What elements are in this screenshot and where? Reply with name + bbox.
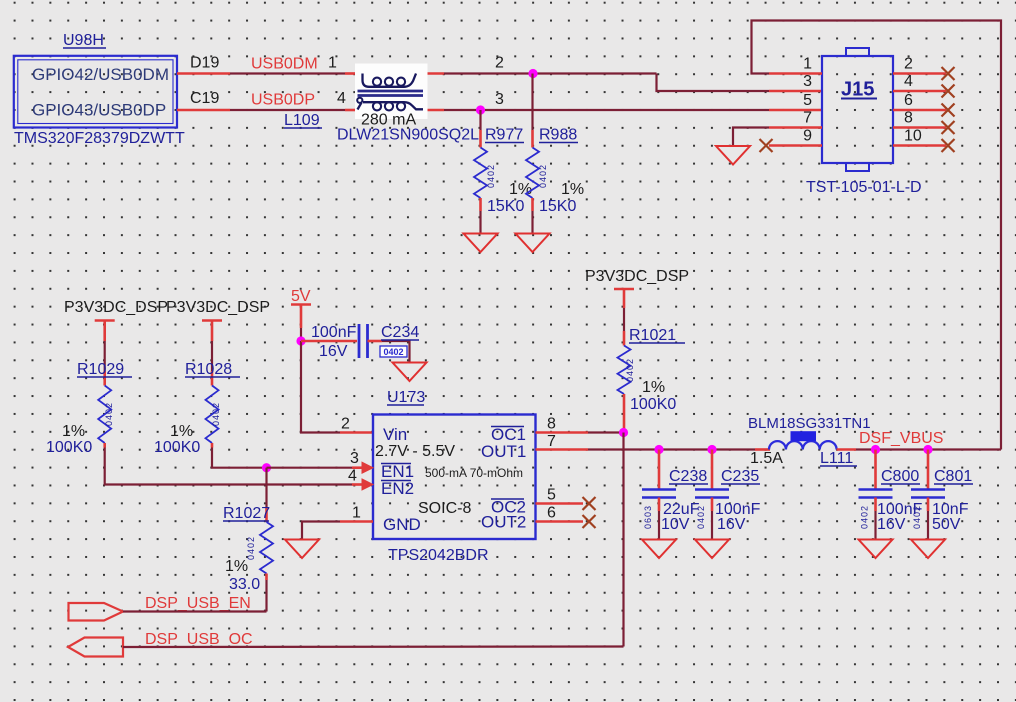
svg-text:C19: C19 [190, 90, 219, 107]
svg-text:TST-105-01-L-D: TST-105-01-L-D [806, 179, 922, 196]
wire R1021 to OC1 junction [623, 394, 626, 433]
choke L109 core lines [358, 90, 424, 93]
wire R988 to ground [531, 198, 534, 211]
wire C800 to ground [874, 498, 877, 512]
resistor R977 wire from junction [479, 110, 481, 130]
svg-text:10V: 10V [661, 516, 690, 533]
wire DSP_USB_OC [123, 645, 624, 648]
wire USB0DP to choke [230, 109, 345, 111]
wire C234 to ground corner [368, 340, 383, 343]
svg-text:16V: 16V [717, 516, 746, 533]
capacitor C238 plates [642, 488, 676, 491]
wire junction down to DSP_USB_OC line [622, 433, 624, 647]
connector J15 top tab [846, 48, 869, 56]
junction at R988 top [528, 69, 537, 78]
svg-text:3: 3 [803, 73, 812, 90]
wire stub J15 pin 5 [769, 109, 822, 112]
svg-text:6: 6 [547, 505, 556, 522]
wire choke pin2 to step-down corner [444, 72, 657, 74]
wire power bar to R1029 [103, 321, 106, 342]
J15 right pin 8 stub [893, 126, 946, 129]
resistor R1027 body [260, 522, 273, 574]
resistor R1029 body [98, 386, 111, 444]
svg-text:5V: 5V [291, 288, 311, 305]
wire C235 to ground [711, 498, 714, 512]
svg-text:0402: 0402 [625, 358, 635, 382]
svg-text:1: 1 [803, 56, 812, 73]
capacitor C234 plates [358, 324, 361, 358]
svg-text:P3V3DC_DSP: P3V3DC_DSP [166, 299, 270, 316]
svg-text:C234: C234 [381, 324, 419, 341]
svg-text:USB0DP: USB0DP [251, 92, 315, 109]
svg-text:R1029: R1029 [77, 361, 124, 378]
U173 pin5 OC2 stub [536, 502, 584, 505]
junction EN1/R1027 [262, 463, 271, 472]
choke L109 top winding [363, 74, 417, 87]
junction at C235 [707, 445, 716, 454]
junction OC1/R1021/DSP_USB_OC [619, 428, 628, 437]
svg-text:BLM18SG331TN1: BLM18SG331TN1 [748, 415, 871, 432]
svg-text:OUT2: OUT2 [481, 513, 526, 532]
svg-text:4: 4 [348, 468, 357, 485]
ferrite bead L111 body [769, 441, 837, 449]
svg-text:0402: 0402 [696, 505, 706, 529]
EN2 input arrow [362, 479, 373, 490]
power bar R1029 [95, 319, 115, 321]
power bar R1028 [202, 319, 222, 321]
ic U173 body [373, 415, 536, 540]
mcu block U98H outline [14, 56, 177, 128]
wire junction to EN1 pin [267, 467, 353, 469]
wire power bar to R1021 [623, 289, 626, 308]
svg-text:100nF: 100nF [311, 324, 357, 341]
svg-text:0402: 0402 [860, 505, 870, 529]
wire stub into choke pin 1 [345, 72, 359, 75]
svg-text:R1021: R1021 [629, 327, 676, 344]
wire stub J15 pin 3 [769, 90, 822, 93]
svg-text:U173: U173 [387, 389, 425, 406]
svg-text:2: 2 [904, 56, 913, 73]
svg-text:4: 4 [904, 73, 913, 90]
no-connect X on pin 8 [942, 121, 955, 134]
resistor R977 body [474, 148, 487, 199]
junction at R977 top [476, 105, 485, 114]
svg-text:0402: 0402 [104, 402, 114, 426]
svg-text:16V: 16V [877, 516, 906, 533]
svg-text:0402: 0402 [246, 536, 256, 560]
wire stub J15 pin 7 [769, 126, 822, 129]
wire R1029 to EN2 [103, 443, 106, 448]
svg-text:15K0: 15K0 [487, 198, 524, 215]
svg-text:1%: 1% [642, 379, 665, 396]
ground below C235 [695, 540, 729, 559]
wire jog down to J15 pin3 level [657, 74, 770, 92]
junction at C801 [923, 445, 932, 454]
svg-text:DLW21SN900SQ2L: DLW21SN900SQ2L [337, 127, 479, 144]
wire C238 to ground [658, 498, 661, 512]
wire stub into Vin pin [340, 431, 373, 434]
svg-text:7: 7 [547, 433, 556, 450]
ground below C800 [859, 540, 893, 559]
svg-text:1: 1 [328, 55, 337, 72]
svg-text:16V: 16V [319, 343, 348, 360]
wire stub out of choke pin 2 [420, 72, 445, 75]
wire J15 pin1 up and across top to VBUS [752, 21, 1002, 450]
svg-text:J15: J15 [841, 79, 874, 101]
ground below R977 [464, 234, 498, 253]
wire stub into bead [755, 448, 770, 451]
svg-text:9: 9 [803, 128, 812, 145]
svg-text:R988: R988 [539, 127, 577, 144]
svg-text:10: 10 [904, 128, 922, 145]
svg-text:8: 8 [547, 416, 556, 433]
capacitor C800 top wire [874, 450, 877, 489]
svg-text:D19: D19 [190, 55, 219, 72]
wire OC1 to junction [588, 431, 624, 433]
svg-text:0603: 0603 [643, 505, 653, 529]
capacitor C801 top wire [927, 450, 930, 489]
svg-text:3: 3 [495, 91, 504, 108]
wire stub J15 pin 1 [769, 72, 822, 75]
svg-text:OUT1: OUT1 [481, 442, 526, 461]
resistor R988 wire from junction [531, 74, 533, 131]
ground at J15 pin 7 [716, 146, 750, 165]
power bar R1021 [614, 288, 634, 290]
svg-text:GPIO43/USB0DP: GPIO43/USB0DP [32, 101, 166, 120]
connector J15 body [822, 56, 893, 163]
wire stub out of choke pin 3 [423, 109, 444, 112]
capacitor C800 plates [859, 488, 893, 491]
svg-text:C800: C800 [881, 468, 919, 485]
wire USB0DM to choke [230, 72, 345, 74]
junction at C238 [654, 445, 663, 454]
svg-text:1: 1 [352, 505, 361, 522]
wire USB0DM pin stub from U98H [177, 72, 230, 75]
svg-text:U98H: U98H [63, 32, 104, 49]
power bar 5V [291, 303, 311, 305]
J15 right pin 6 stub [893, 109, 946, 112]
no-connect X on pin 4 [942, 85, 955, 98]
svg-text:SOIC-8: SOIC-8 [418, 500, 471, 517]
capacitor C238 top wire [658, 450, 661, 489]
svg-text:0402: 0402 [211, 402, 221, 426]
svg-text:500-mA 70-mOhm: 500-mA 70-mOhm [425, 466, 523, 480]
svg-text:5: 5 [547, 487, 556, 504]
svg-text:8: 8 [904, 110, 913, 127]
svg-text:C238: C238 [669, 468, 707, 485]
svg-text:50V: 50V [932, 516, 961, 533]
svg-text:1.5A: 1.5A [750, 450, 783, 467]
connector J15 bottom tab [846, 163, 869, 171]
svg-text:R977: R977 [485, 127, 523, 144]
wire GND pin to ground [340, 520, 373, 523]
svg-text:1%: 1% [225, 558, 248, 575]
svg-text:0402: 0402 [538, 164, 548, 188]
svg-text:1%: 1% [62, 423, 85, 440]
svg-text:L111: L111 [820, 450, 853, 467]
svg-text:GPIO42/USB0DM: GPIO42/USB0DM [32, 65, 169, 84]
J15 right pin 4 stub [893, 90, 946, 93]
wire junction down to Vin [301, 341, 340, 433]
wire R977 to ground [479, 198, 482, 211]
no-connect X on pin 6 [942, 104, 955, 117]
svg-text:GND: GND [383, 515, 421, 534]
port flag DSP_USB_EN [69, 603, 124, 621]
svg-text:4: 4 [337, 90, 346, 107]
svg-text:DSF_VBUS: DSF_VBUS [859, 430, 943, 447]
no-connect X on OUT2 [583, 515, 596, 528]
svg-text:15K0: 15K0 [539, 198, 576, 215]
ground below R988 [516, 234, 550, 253]
wire C801 to ground [927, 498, 930, 512]
port flag DSP_USB_OC [68, 638, 123, 657]
svg-text:C235: C235 [721, 468, 759, 485]
svg-text:Vin: Vin [383, 425, 407, 444]
svg-text:R1028: R1028 [185, 361, 232, 378]
wire OUT1 to ferrite bead [588, 448, 755, 450]
resistor R1021 body [618, 346, 631, 395]
resistor R1028 body [206, 386, 219, 444]
no-connect X on pin 9 [760, 139, 773, 152]
common-mode choke L109 white background [355, 64, 428, 120]
wire junction down to R1027 [265, 468, 267, 508]
EN1 input arrow [362, 462, 373, 473]
ground below U173 [285, 540, 319, 559]
svg-text:1%: 1% [561, 181, 584, 198]
svg-text:0402: 0402 [486, 164, 496, 188]
junction at C800 [871, 445, 880, 454]
svg-text:L109: L109 [284, 112, 320, 129]
ground below C801 [911, 540, 945, 559]
ground below C234 [393, 363, 427, 382]
svg-text:100K0: 100K0 [46, 439, 92, 456]
wire OUT1 pin stub [536, 448, 589, 451]
svg-text:DSP_USB_OC: DSP_USB_OC [145, 631, 253, 648]
svg-text:0402: 0402 [383, 347, 403, 357]
wire DSP_USB_EN [123, 610, 267, 612]
svg-text:TPS2042BDR: TPS2042BDR [388, 547, 489, 564]
svg-text:7: 7 [803, 110, 812, 127]
svg-text:C801: C801 [934, 468, 972, 485]
svg-text:2.7V - 5.5V: 2.7V - 5.5V [375, 443, 455, 460]
U173 pin6 OUT2 stub [536, 520, 584, 523]
svg-text:USB0DM: USB0DM [251, 56, 318, 73]
svg-text:2: 2 [495, 55, 504, 72]
resistor R988 body [526, 148, 539, 199]
wire stub into choke pin 4 [345, 109, 358, 112]
no-connect X on pin 10 [942, 139, 955, 152]
ground below C238 [642, 540, 676, 559]
svg-text:33.0: 33.0 [229, 576, 260, 593]
wire J15 pin7 to ground [733, 128, 769, 147]
J15 right pin 10 stub [893, 144, 946, 147]
capacitor C235 plates [695, 488, 729, 491]
svg-text:3: 3 [350, 450, 359, 467]
choke L109 bottom winding [358, 103, 362, 110]
svg-text:EN2: EN2 [381, 479, 414, 498]
J15 right pin 2 stub [893, 72, 946, 75]
no-connect X on pin 2 [942, 67, 955, 80]
junction 5V/Vin/C234 [296, 336, 305, 345]
svg-text:5: 5 [803, 92, 812, 109]
svg-text:R1027: R1027 [223, 505, 270, 522]
wire R1028 to EN1 [211, 443, 214, 448]
wire bead to VBUS corner [837, 448, 856, 451]
svg-text:P3V3DC_DSP: P3V3DC_DSP [64, 299, 168, 316]
wire R1027 to DSP_USB_EN line [265, 574, 268, 581]
svg-text:TMS320F28379DZWTT: TMS320F28379DZWTT [14, 130, 185, 147]
svg-text:1%: 1% [170, 423, 193, 440]
svg-text:100K0: 100K0 [154, 439, 200, 456]
wire power bar to R1028 [211, 321, 214, 342]
wire 5V down to junction [300, 305, 303, 329]
capacitor C235 top wire [711, 450, 714, 489]
svg-text:2: 2 [341, 416, 350, 433]
wire USB0DP pin stub from U98H [177, 109, 230, 112]
no-connect X on OC2 [583, 497, 596, 510]
wire junction to C234 [301, 340, 357, 343]
C234 package box 0402 [380, 346, 407, 357]
capacitor C801 plates [911, 488, 945, 491]
svg-text:0402: 0402 [912, 505, 922, 529]
svg-text:P3V3DC_DSP: P3V3DC_DSP [585, 268, 689, 285]
wire OC1 pin stub [536, 431, 589, 434]
svg-text:6: 6 [904, 92, 913, 109]
svg-text:DSP_USB_EN: DSP_USB_EN [145, 595, 251, 612]
wire choke pin3 to J15 pin5 [444, 109, 769, 111]
wire stub J15 pin 9 [769, 144, 822, 147]
svg-text:100K0: 100K0 [630, 396, 676, 413]
